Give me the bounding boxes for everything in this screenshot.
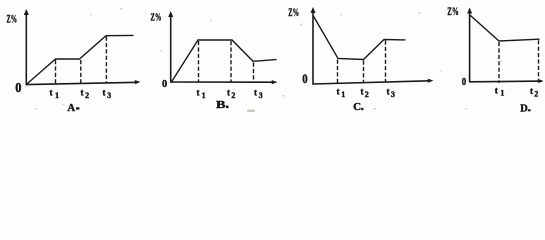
chart A curve [26,35,133,84]
chart C dashed line t1 [337,60,339,84]
chart B dashed line t1 [198,41,200,82]
chart B y-axis [170,14,172,82]
chart C dashed line t3 [385,41,387,83]
svg-text:D: D [520,102,528,114]
svg-text:t: t [495,85,498,95]
chart D x-axis arrowhead [538,79,543,83]
chart D y-axis [469,11,471,82]
svg-text:2: 2 [534,89,538,98]
svg-text:t: t [361,87,364,97]
svg-text:2: 2 [231,91,235,100]
svg-text:1: 1 [55,91,59,100]
svg-text:2: 2 [365,90,369,99]
chart A dashed line t2 [80,60,82,84]
svg-text:t: t [337,87,340,97]
svg-text:t: t [50,88,53,98]
svg-text:3: 3 [391,90,395,99]
svg-text:1: 1 [341,90,345,99]
chart B curve [171,40,276,82]
chart B x-axis arrowhead [272,80,278,84]
chart C dashed line t2 [363,61,365,84]
svg-text:0: 0 [162,78,168,90]
svg-text:0: 0 [302,72,307,86]
svg-text:Z%: Z% [7,12,18,26]
chart A x-axis [26,82,137,84]
svg-text:t: t [530,86,533,96]
scan noise speckles [35,8,502,112]
chart C curve [313,16,405,60]
chart B dashed line t3 [253,63,255,82]
svg-text:2: 2 [85,91,89,100]
svg-text:t: t [387,87,390,97]
chart B dashed line t2 [230,41,232,82]
svg-text:t: t [254,88,257,98]
svg-text:C: C [353,101,361,113]
svg-text:t: t [103,88,106,98]
svg-text:t: t [227,88,230,98]
chart A dashed line t3 [105,37,107,84]
svg-text:B: B [216,99,226,111]
chart B y-axis arrowhead [168,11,173,17]
chart A y-axis [25,12,27,85]
chart D dashed line t2 [538,40,540,82]
svg-text:1: 1 [500,89,504,98]
svg-text:t: t [81,88,84,98]
svg-text:3: 3 [107,91,111,100]
svg-text:Z%: Z% [288,5,299,19]
chart D dashed line t1 [498,42,500,83]
chart D x-axis [470,80,542,83]
svg-text:t: t [197,88,200,98]
svg-text:3: 3 [259,91,263,100]
chart C y-axis [312,10,314,84]
chart C y-axis arrowhead [311,7,316,13]
chart D y-axis arrowhead [467,8,472,14]
chart B x-axis [171,81,274,83]
svg-text:Z%: Z% [447,4,459,18]
svg-text:0: 0 [15,81,21,96]
chart A y-axis arrowhead [24,9,29,15]
svg-text:Z%: Z% [151,11,162,23]
svg-text:A: A [67,102,75,114]
svg-text:1: 1 [202,91,206,100]
chart D curve [470,15,539,41]
chart A dashed line t1 [55,60,57,84]
chart A x-axis arrowhead [135,80,141,84]
chart C x-axis arrowhead [428,79,434,83]
chart C x-axis [313,81,430,84]
svg-text:0: 0 [462,77,466,88]
